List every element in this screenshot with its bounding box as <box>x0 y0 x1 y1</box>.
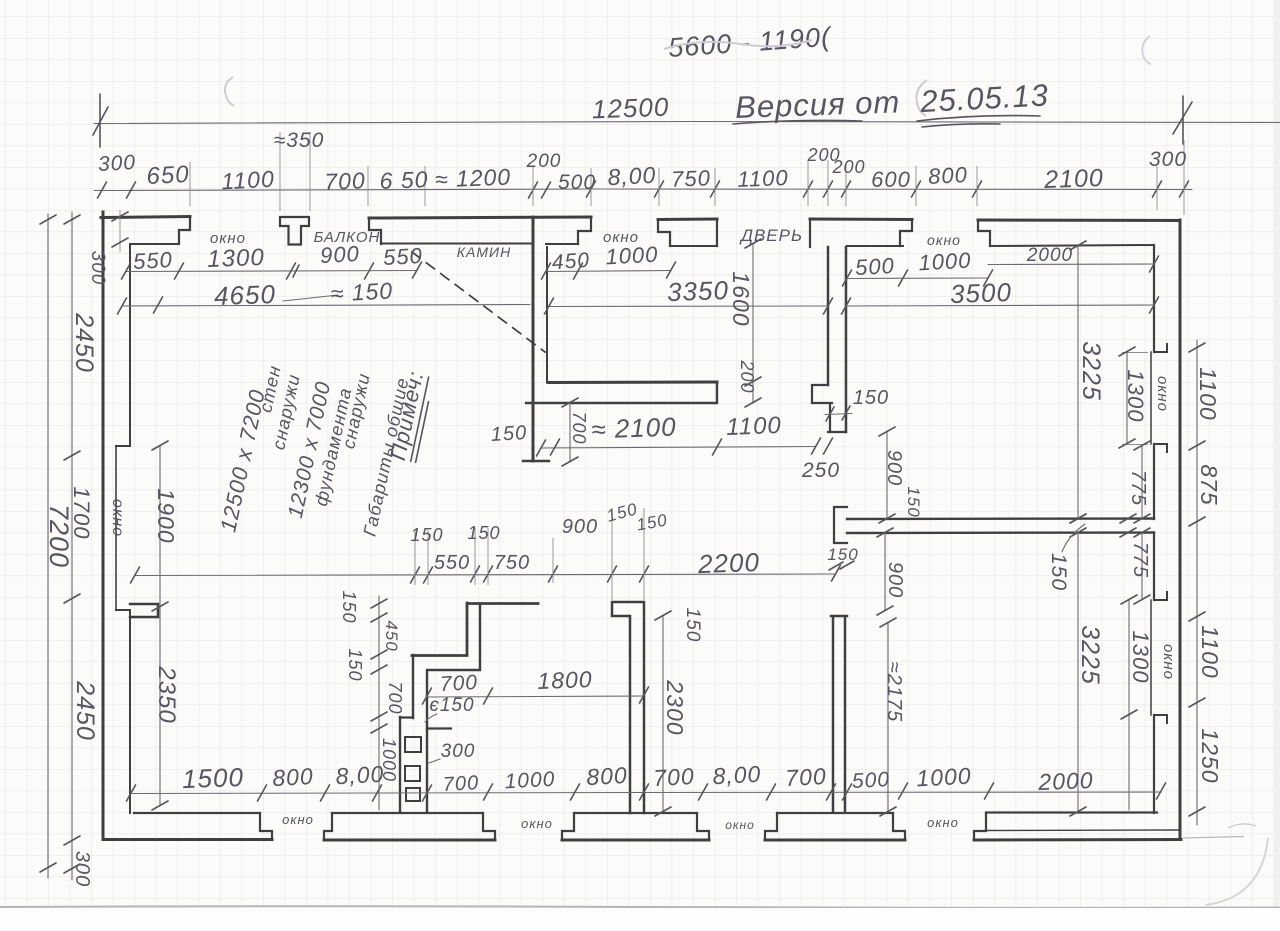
svg-text:12500: 12500 <box>591 92 669 125</box>
right windows jambs <box>1154 344 1167 723</box>
svg-text:775: 775 <box>1127 470 1149 506</box>
svg-text:700: 700 <box>653 763 696 791</box>
balcony right jamb <box>369 218 381 244</box>
fireplace room bottom wall <box>548 381 717 385</box>
svg-text:2000: 2000 <box>1026 245 1073 266</box>
svg-text:КАМИН: КАМИН <box>457 244 511 260</box>
left dim chain line <box>71 212 73 880</box>
svg-text:1100: 1100 <box>1197 625 1223 678</box>
svg-text:800: 800 <box>927 162 968 189</box>
pier box between window2 and door <box>658 219 717 246</box>
svg-text:450: 450 <box>382 620 401 651</box>
svg-text:25.05.13: 25.05.13 <box>918 77 1049 119</box>
left window sill <box>115 446 117 610</box>
svg-text:2100: 2100 <box>1043 164 1105 194</box>
svg-text:8,00: 8,00 <box>607 162 657 191</box>
svg-text:8,00: 8,00 <box>712 761 762 790</box>
chimney flue square 2 <box>405 766 420 781</box>
svg-text:775: 775 <box>1129 542 1151 578</box>
window ОКНО-1 left jamb <box>179 217 190 244</box>
svg-text:700: 700 <box>324 167 366 194</box>
svg-text:окно: окно <box>725 818 755 832</box>
svg-text:3225: 3225 <box>1076 625 1104 685</box>
fireplace wall end cap <box>523 460 549 462</box>
svg-text:300: 300 <box>71 851 93 887</box>
svg-text:150: 150 <box>490 422 527 446</box>
central wall end cap <box>828 431 846 433</box>
svg-text:1100: 1100 <box>737 165 789 192</box>
faint sill extension line bottom right <box>1183 837 1244 839</box>
overall dim line 12500 <box>94 122 1280 124</box>
svg-text:700: 700 <box>439 671 478 696</box>
svg-text:550: 550 <box>434 552 470 574</box>
bottom wall extra inner line right section <box>986 829 1179 832</box>
vertical dim 900 above junction <box>886 432 888 519</box>
dim line 4650 <box>122 305 530 307</box>
svg-text:700: 700 <box>785 763 828 791</box>
svg-text:150: 150 <box>345 648 365 681</box>
left wall outer face <box>102 212 105 838</box>
svg-text:500: 500 <box>558 171 596 194</box>
right outside dim line <box>1196 340 1198 825</box>
vertical dim 900 below junction <box>884 533 886 611</box>
left room wall stub <box>130 604 158 617</box>
balcony pier <box>280 217 309 245</box>
window B dim 1300 <box>1128 600 1130 810</box>
svg-text:2300: 2300 <box>662 679 688 735</box>
svg-text:700: 700 <box>385 681 405 714</box>
svg-text:1100: 1100 <box>221 166 276 195</box>
svg-text:150: 150 <box>904 486 923 517</box>
svg-text:1100: 1100 <box>1195 367 1221 420</box>
window ОКНО-2 left jamb <box>578 217 591 244</box>
dim row 500/1000 top right <box>847 277 988 280</box>
fireplace dashed diagonal <box>412 252 545 352</box>
svg-text:150: 150 <box>682 608 703 643</box>
vertical dim 700 fireplace <box>569 403 571 462</box>
svg-text:500: 500 <box>854 253 895 280</box>
title underlines <box>733 120 862 124</box>
svg-text:800: 800 <box>586 762 629 790</box>
svg-text:окно: окно <box>927 232 961 248</box>
svg-text:≈2175: ≈2175 <box>883 662 905 722</box>
svg-text:окно: окно <box>282 812 314 827</box>
svg-text:1000: 1000 <box>918 248 972 276</box>
vertical dim 3225 upper right room <box>1077 246 1079 519</box>
svg-text:750: 750 <box>494 552 530 574</box>
bottom window окно-W4 jambs <box>893 813 986 840</box>
svg-text:150: 150 <box>410 525 443 545</box>
svg-text:6 50: 6 50 <box>379 166 429 194</box>
svg-text:2200: 2200 <box>697 547 761 579</box>
upper dimension chain line <box>94 189 1192 191</box>
svg-text:1500: 1500 <box>182 762 245 794</box>
svg-text:4650: 4650 <box>214 279 277 311</box>
svg-text:550: 550 <box>132 247 173 274</box>
left wall inner face <box>129 244 131 813</box>
dim line ~2100 / 1100 / 250 <box>541 447 816 449</box>
central wall upper segment <box>828 247 846 432</box>
bottom window окно-W3 jambs <box>697 813 777 840</box>
right wall inner face <box>1153 245 1155 813</box>
svg-text:≈ 150: ≈ 150 <box>330 277 394 306</box>
window A dim 1300 <box>1122 353 1148 445</box>
dim line 700/1800 <box>427 696 644 697</box>
dim line 2200 row <box>135 574 836 576</box>
svg-text:300: 300 <box>87 251 108 286</box>
door ДВЕРЬ right jamb <box>809 219 811 247</box>
left window jambs <box>116 446 130 610</box>
vertical dim 1900/2350 <box>159 446 161 806</box>
central wall door stub <box>834 507 847 543</box>
staircase wall steps <box>412 603 538 656</box>
faint right-edge shading <box>1274 0 1280 906</box>
svg-text:600: 600 <box>871 167 911 192</box>
svg-text:2450: 2450 <box>71 680 99 741</box>
staircase left dim column <box>378 596 380 810</box>
svg-text:3350: 3350 <box>667 275 730 307</box>
svg-text:3500: 3500 <box>950 277 1013 309</box>
note title Примеч <box>385 368 434 463</box>
svg-text:200: 200 <box>526 151 562 172</box>
svg-text:2350: 2350 <box>153 665 180 723</box>
svg-text:окно: окно <box>603 229 639 246</box>
svg-text:800: 800 <box>272 763 315 791</box>
chimney flue square 3 <box>406 788 420 801</box>
vertical dim 3225 lower right room <box>1077 533 1079 812</box>
svg-text:700: 700 <box>442 772 479 796</box>
right windows sills <box>1150 352 1152 715</box>
central wall notch <box>812 385 832 432</box>
svg-text:1900: 1900 <box>153 488 179 543</box>
svg-text:150: 150 <box>827 545 858 564</box>
svg-text:250: 250 <box>801 459 840 482</box>
lower central wall (wall #2) <box>831 616 847 812</box>
svg-text:≈350: ≈350 <box>274 129 325 152</box>
svg-text:300: 300 <box>1149 148 1187 171</box>
dim 2000 <box>988 263 1154 266</box>
lower-left room wall (wall #1) with cap <box>612 602 644 813</box>
faint crossed-out scribble 5600-1190 <box>667 22 834 63</box>
svg-text:2000: 2000 <box>1037 767 1094 795</box>
middle horizontal wall <box>847 519 1154 534</box>
top wall outer face <box>101 217 1179 221</box>
dim line 3350 <box>549 305 828 308</box>
window ОКНО-3 jambs <box>900 220 990 246</box>
svg-text:150: 150 <box>339 590 359 623</box>
svg-text:200: 200 <box>737 359 757 393</box>
svg-text:≈ 1200: ≈ 1200 <box>434 164 511 193</box>
left outside dim line 7200 <box>47 214 49 878</box>
svg-text:1600: 1600 <box>728 271 754 326</box>
svg-text:150: 150 <box>1047 553 1070 591</box>
dim line 3500 <box>847 305 1154 306</box>
svg-text:900: 900 <box>884 562 906 598</box>
tick marks upper chain <box>98 181 1189 198</box>
chimney flue square 1 <box>405 737 421 752</box>
svg-text:1300: 1300 <box>207 244 265 273</box>
svg-text:окно: окно <box>927 815 959 830</box>
svg-text:750: 750 <box>671 165 712 191</box>
svg-text:150: 150 <box>853 387 889 409</box>
svg-text:окно: окно <box>1160 644 1177 680</box>
pencil curl top-left <box>225 77 234 106</box>
svg-text:ДВЕРЬ: ДВЕРЬ <box>739 226 803 245</box>
wall 300 ticks top left <box>119 210 121 252</box>
bottom window окно-W1 jambs <box>260 813 332 840</box>
fireplace room left wall <box>532 217 535 461</box>
extension lines 2200 row <box>415 508 644 600</box>
svg-text:1800: 1800 <box>537 666 593 694</box>
svg-text:є150: є150 <box>429 695 474 716</box>
right wall outer face <box>1179 220 1182 839</box>
scan bottom edge <box>0 906 1280 908</box>
extension lines upper chain <box>190 140 1184 215</box>
svg-text:300: 300 <box>97 151 136 176</box>
balcony 350 extension lines <box>280 132 310 211</box>
junction ticks middle wall <box>1070 514 1136 537</box>
svg-text:300: 300 <box>441 741 476 762</box>
pencil curl top-middle <box>916 80 927 116</box>
svg-text:окно: окно <box>109 499 126 537</box>
scan bottom-right page corner <box>1206 838 1268 905</box>
svg-text:окно: окно <box>521 816 553 831</box>
svg-text:окно: окно <box>210 230 246 247</box>
top wall inner face <box>130 244 1154 247</box>
svg-text:Версия от: Версия от <box>735 84 901 125</box>
svg-text:200: 200 <box>831 157 865 177</box>
svg-text:8,00: 8,00 <box>335 761 385 790</box>
svg-text:875: 875 <box>1196 464 1222 505</box>
svg-text:1000: 1000 <box>916 763 972 792</box>
svg-text:700: 700 <box>569 411 589 444</box>
leader 150 middle wall <box>1062 524 1085 552</box>
bottom wall outer face <box>103 838 1181 842</box>
svg-text:окно: окно <box>1154 376 1171 412</box>
dim 775 lower <box>1141 533 1143 600</box>
label 150 wall2 thickness <box>829 561 854 570</box>
dim row 550/1300/900/550 <box>126 271 417 272</box>
pencil curl top-right <box>1142 36 1151 64</box>
central wall 150 label <box>825 414 852 415</box>
svg-text:1300: 1300 <box>1123 370 1148 423</box>
svg-text:1000: 1000 <box>504 768 556 794</box>
bottom main dim line <box>131 792 1161 794</box>
svg-text:1300: 1300 <box>1128 631 1153 684</box>
svg-text:2450: 2450 <box>70 312 98 373</box>
svg-text:7200: 7200 <box>44 504 74 568</box>
svg-text:550: 550 <box>382 243 423 270</box>
svg-text:3225: 3225 <box>1077 341 1105 401</box>
dim 775 upper <box>1141 446 1143 519</box>
svg-text:450: 450 <box>551 249 591 275</box>
vertical dim 1600 door room <box>752 244 754 403</box>
bottom window окно-W2 jambs <box>483 813 574 840</box>
chimney shaft wall <box>400 717 427 812</box>
svg-text:1250: 1250 <box>1197 728 1223 783</box>
vertical dim 2300 <box>662 616 664 812</box>
svg-text:≈ 2100: ≈ 2100 <box>591 412 677 445</box>
svg-text:650: 650 <box>146 161 190 190</box>
svg-text:150: 150 <box>467 523 500 543</box>
svg-text:900: 900 <box>883 450 905 486</box>
vertical dim ~2175 <box>887 623 889 812</box>
dim row 450/1000 window2 <box>546 271 671 272</box>
bottom wall inner face <box>134 811 1157 814</box>
svg-text:1100: 1100 <box>726 412 783 441</box>
svg-text:БАЛКОН: БАЛКОН <box>314 229 381 246</box>
svg-text:500: 500 <box>851 768 890 793</box>
svg-text:900: 900 <box>562 516 598 538</box>
